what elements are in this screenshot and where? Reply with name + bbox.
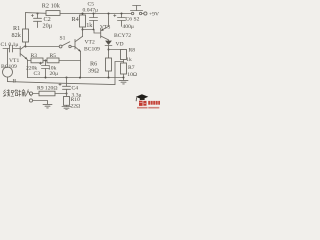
label S1 bbox=[60, 36, 66, 42]
resistor R6 bbox=[106, 58, 112, 78]
svg-text:R4: R4 bbox=[72, 16, 79, 23]
svg-text:S2: S2 bbox=[134, 16, 140, 22]
svg-text:C4: C4 bbox=[72, 85, 79, 91]
label S2 bbox=[134, 16, 140, 22]
svg-text:R1: R1 bbox=[13, 25, 20, 32]
terminal line input return bbox=[29, 99, 32, 102]
label R9 120ohm bbox=[37, 86, 57, 92]
jack B earpiece bbox=[3, 49, 13, 82]
label VT1 bbox=[9, 58, 19, 64]
resistor R2 bbox=[46, 11, 60, 16]
label 220k bbox=[26, 65, 37, 71]
capacitor C1 bbox=[3, 45, 20, 52]
resistor R10 bbox=[64, 94, 70, 107]
svg-text:400μ: 400μ bbox=[123, 24, 134, 30]
node R8 tap bbox=[108, 49, 110, 51]
label C6 bbox=[126, 17, 133, 23]
label VT2 bbox=[85, 40, 95, 46]
node C6 top bbox=[121, 13, 123, 15]
label 82k bbox=[12, 32, 22, 39]
wire VT3 emitter to rail bbox=[108, 14, 110, 27]
node C2 top bbox=[37, 13, 39, 15]
label R10 bbox=[71, 97, 81, 103]
label R4 bbox=[72, 16, 79, 23]
svg-text:20μ: 20μ bbox=[43, 23, 53, 30]
ground R10 bbox=[62, 107, 71, 110]
capacitor C4 bbox=[59, 78, 71, 94]
label BCY72 bbox=[114, 33, 131, 39]
svg-text:C3: C3 bbox=[34, 71, 41, 77]
svg-text:82k: 82k bbox=[12, 32, 22, 39]
label VD bbox=[116, 41, 124, 47]
label 0.047u bbox=[83, 8, 99, 14]
node C5 top bbox=[93, 13, 95, 15]
switch S2 bbox=[131, 6, 144, 15]
node VT2 collector R4 bbox=[82, 29, 84, 31]
svg-text:20μ: 20μ bbox=[50, 71, 59, 77]
resistor R8 bbox=[121, 50, 127, 64]
svg-text:1k: 1k bbox=[126, 57, 132, 63]
node R4 top bbox=[82, 13, 84, 15]
svg-text:C1 0.1μ: C1 0.1μ bbox=[1, 42, 19, 48]
svg-text:C6: C6 bbox=[126, 17, 133, 23]
wire top supply rail bbox=[26, 12, 132, 15]
wire tap to R8 bbox=[109, 49, 124, 51]
capacitor C3 bbox=[39, 61, 49, 78]
label C1 0.1u bbox=[1, 42, 19, 48]
label 10k R5 bbox=[48, 65, 57, 71]
label C2 bbox=[44, 16, 51, 23]
label C3 bbox=[34, 71, 41, 77]
label C4 bbox=[72, 85, 79, 91]
svg-text:BC109: BC109 bbox=[84, 47, 100, 53]
label 20u bbox=[43, 23, 53, 30]
ground input bbox=[43, 104, 52, 108]
label +9V bbox=[149, 11, 159, 17]
svg-text:R2 10k: R2 10k bbox=[42, 3, 61, 10]
terminal line input hot bbox=[29, 92, 32, 95]
wire VT2 emitter down bbox=[80, 51, 82, 78]
resistor R9 bbox=[33, 91, 67, 96]
label C5 bbox=[88, 1, 95, 7]
svg-text:S1: S1 bbox=[60, 36, 66, 42]
label 400u bbox=[123, 24, 134, 30]
label R2 10k bbox=[42, 3, 61, 10]
node C3 top bbox=[45, 60, 47, 62]
node C4 ground bbox=[66, 77, 68, 79]
svg-text:10Ω: 10Ω bbox=[127, 72, 137, 78]
wire emitter feedback rail bbox=[28, 60, 81, 62]
svg-text:39Ω: 39Ω bbox=[88, 67, 99, 74]
resistor R5 bbox=[47, 58, 59, 63]
wire R1 top feed bbox=[25, 13, 27, 29]
terminal +9V bbox=[144, 12, 147, 15]
transistor VT3 bbox=[101, 26, 109, 40]
resistor R4 bbox=[80, 14, 86, 30]
svg-text:R3: R3 bbox=[31, 53, 38, 59]
svg-text:22Ω: 22Ω bbox=[71, 104, 81, 110]
wire earpiece return bbox=[8, 62, 124, 85]
svg-text:C5: C5 bbox=[88, 1, 95, 7]
switch S1 bbox=[59, 42, 75, 48]
transistor VT2 bbox=[75, 36, 83, 51]
svg-text:R10: R10 bbox=[71, 97, 81, 103]
wire VT1 emitter down bbox=[27, 60, 29, 78]
svg-text:1k: 1k bbox=[86, 22, 93, 29]
ground output bbox=[119, 80, 128, 84]
label line input xianluoshuru bbox=[3, 89, 31, 96]
label BC109 VT2 bbox=[84, 47, 100, 53]
label R1 bbox=[13, 25, 20, 32]
wire collector node to VT3 base bbox=[83, 30, 101, 34]
resistor R1 bbox=[23, 29, 29, 46]
label B bbox=[13, 79, 17, 85]
svg-text:+9V: +9V bbox=[149, 11, 159, 17]
label R6 bbox=[90, 60, 97, 67]
label 39ohm bbox=[88, 67, 99, 74]
label 20u C3 bbox=[50, 71, 59, 77]
capacitor C6 bbox=[114, 14, 126, 27]
node VT2 emitter ground bbox=[79, 77, 81, 79]
node R7 ground bbox=[123, 77, 125, 79]
label R3 bbox=[31, 53, 38, 59]
resistor R3 bbox=[31, 58, 43, 63]
node R6 ground bbox=[108, 77, 110, 79]
wire input return bbox=[33, 101, 48, 105]
svg-text:0.047μ: 0.047μ bbox=[83, 8, 99, 14]
resistor R7 bbox=[121, 63, 127, 80]
label 22ohm bbox=[71, 104, 81, 110]
transistor VT1 bbox=[20, 45, 27, 60]
label BC109 VT1 bbox=[1, 64, 17, 70]
svg-text:VT2: VT2 bbox=[85, 40, 95, 46]
svg-text:BCY72: BCY72 bbox=[114, 33, 131, 39]
logo elecfans watermark bbox=[136, 94, 160, 108]
capacitor C2 bbox=[31, 14, 41, 28]
label R7 bbox=[128, 65, 135, 71]
node C3 ground bbox=[45, 77, 47, 79]
label 3.3u bbox=[72, 92, 82, 98]
svg-text:R5: R5 bbox=[50, 53, 57, 59]
svg-text:VD: VD bbox=[116, 41, 124, 47]
node C4 R9 R10 bbox=[66, 93, 68, 95]
node C5 bottom bbox=[93, 29, 95, 31]
svg-text:R6: R6 bbox=[90, 60, 97, 67]
svg-text:R8: R8 bbox=[129, 48, 136, 54]
label 1k R8 bbox=[126, 57, 132, 63]
wire VT1 collector to S1 bbox=[26, 46, 60, 48]
label R5 bbox=[50, 53, 57, 59]
wire ground rail bbox=[28, 77, 124, 79]
label VT3 bbox=[100, 25, 110, 31]
svg-text:R9 120Ω: R9 120Ω bbox=[37, 86, 57, 92]
label R8 bbox=[129, 48, 136, 54]
capacitor C5 bbox=[90, 14, 98, 30]
svg-text:R7: R7 bbox=[128, 65, 135, 71]
wire VT2 collector up bbox=[82, 30, 84, 37]
diode VD bbox=[105, 40, 112, 58]
node collector VT1 junction bbox=[25, 46, 27, 48]
node VT3 rail bbox=[108, 13, 110, 15]
label 1k R4 bbox=[86, 22, 93, 29]
label 10ohm bbox=[127, 72, 137, 78]
